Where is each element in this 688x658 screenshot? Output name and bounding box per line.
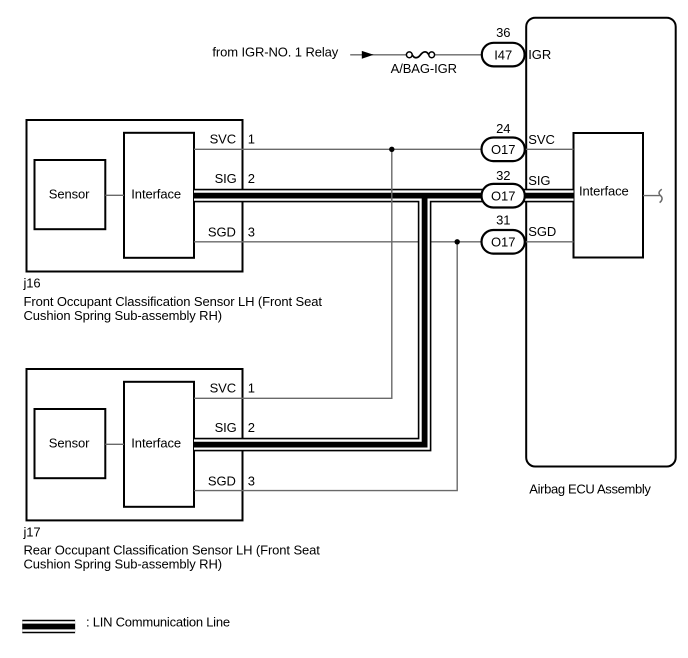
- svg-text:SIG: SIG: [215, 171, 237, 186]
- svg-text:2: 2: [248, 420, 255, 435]
- svg-text:Airbag ECU Assembly: Airbag ECU Assembly: [529, 482, 651, 497]
- LIN pipe core: j16 run: [194, 193, 574, 199]
- legend LIN sample core: [22, 624, 75, 630]
- legend LIN sample outer: [22, 620, 75, 634]
- wire SVC vertical branch: [194, 149, 392, 398]
- interface block j17 Interface: [124, 382, 194, 507]
- svg-text:SVC: SVC: [210, 380, 236, 395]
- LIN pipe outer black: j16 SIG run: [194, 189, 574, 203]
- connector oval I47: [482, 43, 525, 67]
- wire from relay: [350, 54, 406, 56]
- svg-text:Interface: Interface: [131, 186, 181, 201]
- wire j16 sensor-interface: [105, 194, 124, 196]
- svg-text:Cushion Spring Sub-assembly RH: Cushion Spring Sub-assembly RH): [24, 308, 222, 323]
- svg-text:Sensor: Sensor: [49, 435, 90, 450]
- wire SGD j16 to ECU: [194, 241, 482, 243]
- svg-text:j17: j17: [23, 524, 41, 539]
- svg-text:SGD: SGD: [208, 224, 236, 239]
- svg-text:from IGR-NO. 1 Relay: from IGR-NO. 1 Relay: [212, 45, 338, 60]
- LIN pipe white: j16 run: [194, 190, 574, 200]
- connector oval O17 SGD: [482, 230, 525, 254]
- svg-text:Cushion Spring Sub-assembly RH: Cushion Spring Sub-assembly RH): [24, 556, 222, 571]
- svg-text:24: 24: [496, 121, 510, 136]
- svg-text:j16: j16: [23, 276, 41, 291]
- sensor block j17 Sensor: [35, 409, 106, 478]
- LIN pipe core: j17 run: [194, 196, 425, 445]
- svg-text:Front Occupant Classification: Front Occupant Classification Sensor LH …: [24, 294, 323, 309]
- svg-text:31: 31: [496, 212, 510, 227]
- connector j17 outer box: [27, 369, 243, 520]
- interface block ECU Interface: [574, 133, 644, 258]
- svg-text:SIG: SIG: [528, 173, 550, 188]
- ECU box Airbag ECU Assembly: [526, 18, 676, 467]
- connector oval O17 SIG: [482, 184, 525, 208]
- legend LIN sample white: [22, 621, 75, 631]
- svg-text:3: 3: [248, 473, 255, 488]
- svg-text:Rear Occupant Classification S: Rear Occupant Classification Sensor LH (…: [24, 543, 321, 558]
- wire ECU interface stub: [643, 195, 660, 197]
- wire SGD inside ECU: [525, 241, 574, 243]
- svg-text:3: 3: [248, 224, 255, 239]
- svg-text:O17: O17: [491, 189, 515, 204]
- continuation squiggle: [659, 189, 662, 202]
- svg-text:I47: I47: [494, 47, 512, 62]
- svg-text:A/BAG-IGR: A/BAG-IGR: [391, 61, 457, 76]
- svg-text:SVC: SVC: [210, 131, 236, 146]
- LIN pipe outer black: j17 SIG run with elbow: [194, 196, 425, 445]
- wire SGD vertical branch: [194, 242, 457, 491]
- interface block j16 Interface: [124, 133, 194, 258]
- svg-text:SGD: SGD: [208, 473, 236, 488]
- svg-text:SGD: SGD: [528, 224, 556, 239]
- svg-text:O17: O17: [491, 142, 515, 157]
- svg-text:Sensor: Sensor: [49, 186, 90, 201]
- fuse A/BAG-IGR: [406, 52, 412, 58]
- svg-text:IGR: IGR: [528, 47, 551, 62]
- junction dot SGD: [455, 239, 460, 244]
- svg-text:Interface: Interface: [579, 183, 629, 198]
- wire j17 sensor-interface: [105, 443, 124, 445]
- arrow head: [362, 51, 374, 59]
- svg-text:: LIN Communication Line: : LIN Communication Line: [86, 614, 230, 629]
- svg-text:32: 32: [496, 168, 510, 183]
- svg-text:Interface: Interface: [131, 435, 181, 450]
- connector oval O17 SVC: [482, 138, 525, 162]
- svg-text:1: 1: [248, 131, 255, 146]
- svg-text:O17: O17: [491, 235, 515, 250]
- svg-text:2: 2: [248, 171, 255, 186]
- connector j16 outer box: [27, 120, 243, 272]
- wire SVC inside ECU: [525, 148, 574, 150]
- svg-text:SIG: SIG: [215, 420, 237, 435]
- sensor block j16 Sensor: [35, 160, 106, 229]
- svg-text:36: 36: [496, 25, 510, 40]
- junction dot SVC: [389, 147, 394, 152]
- wire SVC j16 to ECU: [194, 148, 482, 150]
- svg-text:SVC: SVC: [528, 132, 554, 147]
- svg-text:1: 1: [248, 380, 255, 395]
- LIN pipe white: j17 run: [194, 196, 425, 445]
